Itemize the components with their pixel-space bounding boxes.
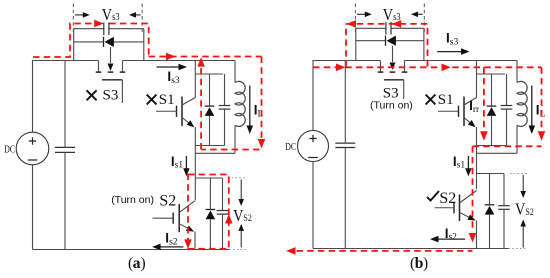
wire: Cdc top lead (a) [64, 61, 66, 148]
wire: C1 branch upper (a) [224, 74, 226, 106]
wire: S1 module bottom (a) [195, 145, 224, 147]
wire: S3 diode branch right (a) [114, 41, 144, 43]
S3 gate bar (b) [384, 79, 404, 81]
red path: into S3 snubber (a) [33, 24, 95, 58]
dotted guide top (a) [228, 177, 247, 179]
S3 drain contact (a) [96, 71, 102, 73]
wire: DC source bottom lead (a) [32, 165, 34, 250]
wire: bottom rail (a) [33, 249, 230, 251]
svg-text:S2: S2 [159, 193, 176, 210]
wire: C2 branch upper (a) [222, 178, 224, 211]
X mark on S1 (b) [426, 95, 436, 105]
wire: inductor bottom lead (b) [516, 125, 518, 153]
red path: up through D1 (a) [200, 66, 202, 150]
S3 drain contact (b) [378, 71, 384, 73]
svg-text:): ) [141, 255, 146, 272]
svg-text:S3: S3 [103, 88, 119, 104]
Vs3 left arrow (a) [75, 14, 84, 16]
wire: S3 module left edge (b) [355, 28, 357, 60]
red path: down right side (b) [541, 67, 543, 132]
Is1 arrow (a) [185, 156, 187, 169]
svg-text:S1: S1 [438, 92, 454, 108]
Vs3 right arrow (a) [134, 14, 141, 16]
IGBT S1 (a) [181, 97, 183, 127]
svg-text:DC: DC [4, 144, 15, 155]
S3 drain lead (a) [98, 61, 100, 72]
S3 body contact (b) [390, 71, 396, 73]
IGBT S2 (a) [178, 204, 180, 232]
red path: S3 module right side (a) [109, 24, 149, 57]
red arrow right 1 (b) [336, 64, 346, 72]
wire: Cdc bottom lead (b) [344, 148, 346, 249]
Vs3 left guide line (a) [72, 4, 74, 34]
diode D2 (a) [206, 209, 216, 211]
X mark on S3 (a) [87, 90, 97, 100]
S3 drain lead (b) [380, 61, 382, 72]
svg-text:(Turn on): (Turn on) [111, 194, 154, 206]
wire: DC source bottom lead (b) [312, 162, 314, 249]
red arrow down at S1 module (b) [480, 131, 488, 141]
dotted guide bottom (a) [229, 249, 247, 251]
red arrow down right (a) [258, 139, 266, 149]
IL arrow (b) [531, 86, 533, 127]
S3 gate lead (b) [403, 80, 405, 99]
wire: S3 diode branch left (b) [356, 40, 386, 42]
red arrow up at D1 (a) [197, 57, 205, 67]
wire: D1 branch upper (b) [491, 74, 493, 106]
wire: S2 emitter to rail (a) [194, 232, 196, 250]
dotted guide top (b) [510, 173, 528, 175]
wire: S1 module bottom (b) [477, 145, 507, 147]
red arrow left at S3 cap (b) [392, 20, 402, 28]
S3 source contact (b) [402, 71, 408, 73]
capacitor Cdc (a) [55, 146, 75, 148]
red arrow left at corner (b) [347, 20, 357, 28]
S1 collector lead (b) [476, 61, 478, 98]
Vs3 right arrow (b) [416, 13, 423, 15]
red arrow right 2 (b) [442, 64, 452, 72]
wire: D2 branch lower (a) [209, 219, 211, 249]
Is2 arrow (a) [160, 246, 183, 248]
svg-text:): ) [423, 255, 428, 272]
IGBT S2 (b) [459, 195, 461, 222]
red path: loop bottom (a) [201, 149, 259, 151]
wire: S3 diode branch right (b) [396, 40, 424, 42]
VS2 lower line (a) [240, 231, 242, 248]
wire + arrow from D3 into S3 body terminal (a) [110, 47, 112, 63]
red path: along top (a) [149, 56, 262, 58]
check mark on S2 (b) [427, 191, 439, 201]
VS2 lower line (b) [522, 227, 524, 248]
wire: top rail left of S3 (a) [32, 60, 99, 62]
capacitor Coss of S3 (a) [103, 22, 105, 35]
Is3 arrow (a) [157, 66, 180, 68]
wire: DC source top lead (a) [32, 61, 34, 133]
wire: C2 branch lower (b) [503, 209, 505, 248]
capacitor C2 (a) [217, 210, 229, 212]
wire: S3 cap branch left (a) [74, 28, 104, 30]
wire: C2 branch upper (b) [503, 174, 505, 206]
red arrow down on S2 box (a) [184, 239, 192, 249]
S3 source contact (a) [120, 71, 126, 73]
wire: Cdc bottom lead (a) [64, 152, 66, 249]
Vs3 left arrow (b) [357, 13, 366, 15]
wire: inductor bottom lead (a) [234, 125, 236, 153]
red arrow left at bottom (b) [286, 247, 296, 255]
diode D1 (a) [205, 105, 215, 107]
wire: S1 module top (b) [477, 73, 506, 75]
S3 gate lead (a) [121, 80, 123, 103]
red path: along bottom rail (b) [297, 250, 473, 252]
S3 gate bar (a) [102, 79, 122, 81]
IGBT S1 (b) [463, 97, 465, 127]
svg-text:S1: S1 [159, 92, 175, 108]
wire: S3 cap branch left (b) [356, 27, 386, 29]
wire: S2 module top (a) [195, 177, 222, 179]
S3 source lead (b) [404, 61, 406, 72]
S3 source lead (a) [122, 61, 124, 72]
red path: S3 top loop (b) [346, 24, 428, 67]
Vs3 right guide line (a) [141, 4, 143, 34]
red path: right side down (a) [261, 57, 263, 140]
body diode D3 of S3 (a) [103, 37, 105, 47]
red path: joining segment (b) [473, 145, 542, 147]
wire: load bottom to S1 emitter node (a) [195, 152, 235, 154]
wire: D1 branch lower (a) [209, 116, 211, 146]
red loop around S2 diode (a) [188, 175, 229, 249]
wire: C2 branch lower (a) [222, 214, 224, 249]
X mark on S1 (a) [147, 95, 157, 105]
IL arrow (a) [249, 86, 251, 127]
red path: along main wire (b) [313, 66, 541, 68]
wire: S2 module top (b) [477, 173, 505, 175]
wire: S3 cap branch right (b) [391, 27, 424, 29]
capacitor Cdc (b) [335, 142, 355, 144]
wire: S1 module top (a) [195, 73, 223, 75]
svg-text:S2: S2 [439, 190, 456, 207]
wire: load bottom (b) [477, 152, 518, 154]
wire: S3 cap branch right (a) [109, 28, 144, 30]
wire: top rail right of S3 (a) [123, 60, 236, 62]
wire: D2 branch upper (a) [209, 178, 211, 210]
red arrow down at S2 (b) [469, 233, 477, 243]
diode D1 (b) [487, 105, 497, 107]
Is1 arrow (b) [467, 156, 469, 169]
S1 collector lead (a) [194, 61, 196, 98]
wire: inductor top lead (a) [234, 61, 236, 83]
wire + arrow from D3 into S3 body terminal (b) [392, 46, 394, 62]
red arrow right on top (a) [166, 53, 176, 61]
red path: down through S2 (b) [472, 146, 474, 232]
wire: D1 branch upper (a) [209, 74, 211, 106]
red arrow right at S3 cap (a) [94, 20, 104, 28]
wire: D2 branch upper (b) [489, 174, 491, 205]
VS2 upper line (a) [240, 180, 242, 200]
wire: top rail left of S3 (b) [312, 60, 380, 62]
capacitor C2 (b) [498, 205, 510, 207]
svg-text:a: a [133, 255, 141, 272]
capacitor C1 (b) [501, 105, 513, 107]
Vs3 right guide line (b) [423, 4, 425, 34]
svg-text:(Turn on): (Turn on) [370, 100, 413, 112]
wire: C1 branch lower (b) [506, 109, 508, 145]
body diode D3 of S3 (b) [385, 36, 387, 46]
svg-text:DC: DC [285, 141, 296, 152]
red path: down through S1 module (b) [483, 67, 485, 132]
wire: Cdc top lead (b) [344, 61, 346, 144]
DC source (b) [298, 131, 329, 162]
red arrow down right (b) [538, 131, 546, 141]
wire: S2 emitter to rail (b) [476, 221, 478, 249]
wire: S3 module right edge (b) [423, 28, 425, 60]
wire: S1 emitter down to S2 (b) [476, 127, 478, 189]
wire: inductor top lead (b) [516, 61, 518, 83]
wire: C1 branch upper (b) [506, 74, 508, 106]
red path: left of S3 module down (b) [345, 24, 347, 67]
Is2 arrow (b) [438, 238, 465, 240]
VS2 upper line (b) [522, 175, 524, 191]
Is3 arrow (b) [437, 51, 462, 53]
wire: S3 diode branch left (a) [74, 41, 104, 43]
capacitor Coss of S3 (b) [385, 22, 387, 35]
DC source (a) [16, 132, 49, 165]
wire: D2 branch lower (b) [489, 215, 491, 249]
wire: D1 branch lower (b) [491, 116, 493, 146]
S3 body contact (a) [108, 71, 114, 73]
red arrow up on S2 box (a) [225, 214, 233, 224]
wire: C1 branch lower (a) [224, 109, 226, 145]
wire: top rail right of S3 (b) [405, 60, 518, 62]
wire: S1 emitter down to S2 (a) [194, 127, 196, 200]
wire: S3 module right edge (a) [143, 29, 145, 61]
Vs3 left guide line (b) [354, 4, 356, 34]
wire: bottom rail (b) [313, 248, 509, 250]
diode D2 (b) [485, 204, 495, 206]
capacitor C1 (a) [219, 105, 231, 107]
wire: DC source top lead (b) [312, 61, 314, 131]
dotted guide bottom (b) [509, 248, 528, 250]
wire: S3 module left edge (a) [73, 29, 75, 61]
